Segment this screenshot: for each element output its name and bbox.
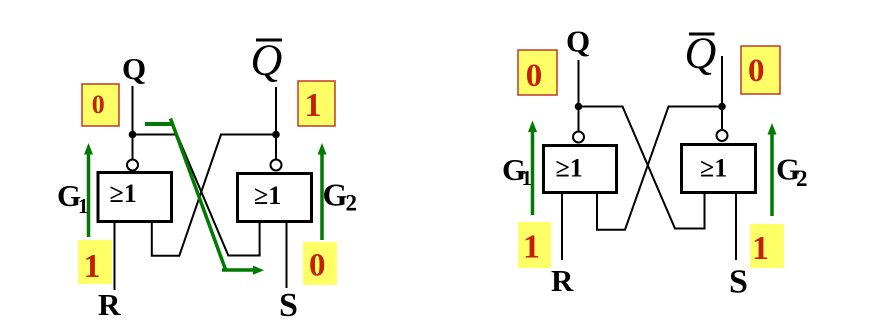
inverter bubble of gate G2 <box>271 160 282 171</box>
green arrow G1 (up) <box>84 143 93 237</box>
svg-text:2: 2 <box>346 191 358 216</box>
or-gate G2 body <box>682 145 756 193</box>
svg-text:Q: Q <box>685 29 717 78</box>
svg-text:S: S <box>279 287 298 324</box>
wire cross-couple: Qbar node to gate G1 lower input <box>152 135 276 256</box>
label Qbar (left latch inverted output) <box>251 36 283 85</box>
inverter bubble of gate G2 <box>717 130 728 141</box>
svg-text:Q: Q <box>251 36 283 85</box>
svg-text:≥1: ≥1 <box>110 179 137 208</box>
svg-text:0: 0 <box>748 53 765 89</box>
or-gate G1 body <box>544 146 617 193</box>
svg-text:1: 1 <box>84 248 101 285</box>
wire Qbar vertical <box>275 87 277 134</box>
wire Q junction to bubble <box>132 135 134 160</box>
svg-text:0: 0 <box>526 58 543 94</box>
svg-text:1: 1 <box>523 228 540 265</box>
value box 0 on Q <box>82 84 119 126</box>
svg-text:≥1: ≥1 <box>556 154 583 183</box>
label G2 <box>323 177 358 216</box>
svg-text:R: R <box>551 263 574 298</box>
value box 1 on S <box>750 224 784 268</box>
value box 1 on Qbar <box>298 81 335 126</box>
wire Qbar vertical <box>721 56 723 106</box>
wire R input <box>114 223 116 290</box>
wire R input <box>561 194 563 260</box>
inverter bubble of gate G1 <box>127 160 138 171</box>
green arrow G2 (up) <box>768 123 777 216</box>
inverter bubble of gate G1 <box>573 132 584 143</box>
svg-text:R: R <box>98 287 121 322</box>
or-gate G1 body <box>98 173 172 222</box>
green arrow G1 (up) <box>528 121 537 216</box>
value box 0 on Qbar <box>741 46 780 94</box>
value box 1 on R <box>518 222 551 268</box>
svg-text:0: 0 <box>92 90 105 119</box>
value box 1 on R <box>78 240 112 285</box>
value box 0 on Q <box>518 50 557 95</box>
label Qbar (right latch inverted output) <box>685 29 717 78</box>
wire cross-couple: Qbar node to left gate lower input <box>597 107 722 230</box>
svg-text:1: 1 <box>522 166 533 190</box>
wire S input <box>286 223 288 288</box>
wire S input <box>735 194 737 260</box>
wire Qbar junction to bubble <box>721 107 723 131</box>
label G1 <box>502 152 532 190</box>
wire Q vertical <box>578 60 580 107</box>
svg-text:G: G <box>323 177 348 213</box>
green arrow G2 (up) <box>318 143 327 240</box>
label G2 <box>776 152 808 192</box>
wire cross-couple: Q node to gate G2 lower input <box>133 135 260 256</box>
wire Q junction to bubble <box>578 107 580 132</box>
svg-text:0: 0 <box>309 248 326 284</box>
node Qbar junction <box>718 103 726 111</box>
svg-text:Q: Q <box>566 24 590 59</box>
svg-text:1: 1 <box>305 87 322 124</box>
wire Qbar junction to bubble <box>275 135 277 160</box>
svg-text:2: 2 <box>796 166 808 191</box>
node Qbar junction <box>272 131 280 139</box>
svg-text:S: S <box>729 264 748 301</box>
svg-text:≥1: ≥1 <box>700 154 727 183</box>
svg-text:Q: Q <box>122 51 146 86</box>
wire cross-couple: Q node to right gate lower input <box>579 107 705 229</box>
value box 0 on S <box>303 242 337 285</box>
green transition arrow (strike path) <box>145 119 264 275</box>
label G1 <box>57 178 89 218</box>
wire Q vertical <box>132 86 134 134</box>
svg-text:1: 1 <box>78 194 89 218</box>
svg-text:1: 1 <box>752 230 769 267</box>
or-gate G2 body <box>238 174 312 222</box>
svg-text:≥1: ≥1 <box>254 181 281 210</box>
node Q junction <box>575 103 583 111</box>
node Q junction <box>129 131 137 139</box>
